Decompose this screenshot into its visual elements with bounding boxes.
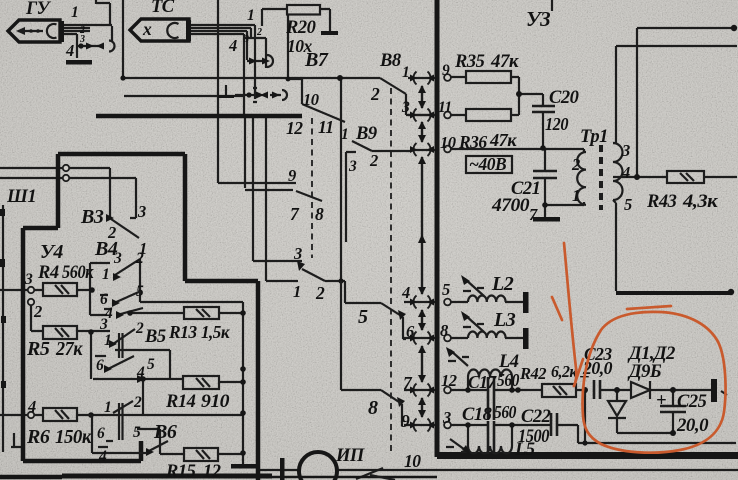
svg-text:560: 560 — [494, 402, 517, 422]
svg-text:2: 2 — [135, 250, 144, 267]
svg-text:L3: L3 — [493, 309, 516, 331]
svg-text:2: 2 — [370, 84, 380, 104]
svg-text:2: 2 — [135, 320, 144, 337]
svg-text:5: 5 — [147, 356, 155, 373]
svg-text:R20: R20 — [285, 18, 316, 38]
svg-text:ИП: ИП — [335, 446, 365, 466]
svg-text:С20: С20 — [549, 88, 579, 108]
svg-text:В3: В3 — [80, 206, 104, 228]
svg-text:2: 2 — [571, 155, 580, 174]
svg-text:4: 4 — [98, 448, 107, 465]
svg-text:1: 1 — [102, 266, 109, 283]
svg-text:910: 910 — [201, 392, 229, 412]
svg-text:~40В: ~40В — [469, 154, 507, 174]
svg-text:47к: 47к — [489, 130, 518, 150]
svg-text:5: 5 — [442, 280, 450, 299]
svg-text:12: 12 — [203, 462, 221, 480]
svg-text:6: 6 — [97, 425, 105, 442]
svg-text:10: 10 — [404, 451, 421, 471]
svg-text:3: 3 — [442, 408, 451, 427]
svg-text:3: 3 — [401, 99, 410, 116]
svg-text:R43: R43 — [646, 192, 677, 212]
svg-text:5: 5 — [358, 306, 368, 328]
svg-text:12: 12 — [286, 118, 303, 138]
svg-text:Д9Б: Д9Б — [627, 362, 662, 382]
svg-text:Д1,Д2: Д1,Д2 — [627, 344, 675, 364]
svg-text:1: 1 — [247, 7, 254, 24]
svg-text:R4: R4 — [37, 263, 59, 283]
svg-text:47к: 47к — [490, 52, 519, 72]
svg-text:11: 11 — [438, 99, 452, 116]
svg-text:5: 5 — [624, 195, 632, 214]
svg-text:R36: R36 — [458, 132, 487, 152]
svg-text:9: 9 — [442, 62, 450, 79]
svg-text:В9: В9 — [355, 124, 377, 144]
svg-text:R14: R14 — [165, 392, 196, 412]
svg-text:L5: L5 — [514, 440, 535, 460]
svg-text:У4: У4 — [40, 241, 63, 263]
svg-text:6,2к: 6,2к — [551, 362, 578, 381]
svg-text:5: 5 — [136, 283, 144, 300]
svg-text:2: 2 — [256, 27, 262, 38]
svg-text:Ш1: Ш1 — [6, 187, 36, 207]
svg-text:С25: С25 — [677, 392, 707, 412]
svg-text:x: x — [142, 19, 152, 39]
svg-text:У3: У3 — [526, 7, 550, 31]
svg-text:3: 3 — [99, 316, 108, 333]
svg-text:1: 1 — [572, 186, 580, 205]
svg-text:20,0: 20,0 — [676, 416, 708, 436]
svg-text:6: 6 — [406, 322, 415, 341]
svg-text:1: 1 — [341, 126, 348, 143]
svg-text:4,3к: 4,3к — [682, 192, 718, 212]
svg-text:+: + — [656, 391, 666, 411]
svg-text:1: 1 — [293, 282, 301, 301]
svg-text:С18: С18 — [462, 405, 492, 425]
svg-text:560: 560 — [497, 370, 520, 390]
svg-text:R15: R15 — [165, 462, 196, 480]
svg-text:10: 10 — [440, 133, 456, 152]
svg-text:3: 3 — [348, 158, 357, 175]
svg-text:560к: 560к — [62, 263, 94, 283]
svg-text:120: 120 — [545, 114, 569, 134]
svg-text:6: 6 — [96, 357, 104, 374]
svg-text:11: 11 — [318, 117, 334, 137]
svg-text:ГУ: ГУ — [25, 0, 52, 19]
svg-text:150к: 150к — [55, 426, 92, 448]
svg-text:9: 9 — [401, 411, 410, 431]
svg-text:7: 7 — [529, 205, 538, 224]
svg-text:2: 2 — [315, 283, 325, 303]
svg-text:1: 1 — [71, 4, 78, 21]
svg-text:5: 5 — [133, 424, 141, 441]
svg-text:3: 3 — [79, 34, 85, 45]
svg-text:1,5к: 1,5к — [201, 322, 231, 342]
svg-text:4: 4 — [65, 41, 74, 60]
svg-text:ТС: ТС — [151, 0, 175, 17]
svg-text:R35: R35 — [454, 52, 485, 72]
svg-text:L2: L2 — [491, 273, 514, 295]
svg-text:R6: R6 — [26, 426, 50, 448]
svg-text:10: 10 — [303, 90, 319, 109]
svg-text:12: 12 — [441, 371, 457, 390]
svg-text:8: 8 — [440, 321, 448, 340]
svg-text:2: 2 — [133, 394, 142, 411]
svg-text:R42: R42 — [519, 364, 546, 383]
svg-text:1: 1 — [402, 64, 409, 81]
svg-text:L4: L4 — [498, 352, 519, 372]
svg-text:3: 3 — [243, 34, 249, 45]
svg-text:3: 3 — [113, 250, 122, 267]
svg-text:R13: R13 — [168, 322, 197, 342]
svg-text:В6: В6 — [153, 421, 177, 443]
svg-text:3: 3 — [24, 271, 33, 288]
svg-text:В7: В7 — [304, 49, 329, 71]
svg-text:С22: С22 — [521, 407, 551, 427]
svg-text:Тр1: Тр1 — [580, 127, 608, 147]
svg-text:2: 2 — [33, 302, 42, 321]
svg-text:4: 4 — [27, 397, 36, 416]
svg-text:В8: В8 — [379, 51, 401, 71]
svg-text:9: 9 — [288, 166, 296, 185]
svg-text:1: 1 — [104, 332, 111, 349]
svg-text:4: 4 — [228, 36, 237, 55]
svg-text:8: 8 — [315, 204, 324, 224]
svg-text:R5: R5 — [26, 338, 50, 360]
svg-text:4: 4 — [401, 283, 410, 302]
svg-text:2: 2 — [369, 151, 378, 170]
svg-text:4: 4 — [136, 364, 145, 381]
svg-text:3: 3 — [137, 202, 146, 221]
svg-text:В5: В5 — [144, 327, 166, 347]
svg-text:4: 4 — [621, 163, 630, 182]
svg-text:3: 3 — [293, 244, 302, 263]
svg-text:27к: 27к — [55, 338, 83, 360]
svg-text:4700: 4700 — [491, 196, 529, 216]
svg-text:8: 8 — [368, 397, 378, 419]
svg-text:1: 1 — [104, 399, 111, 416]
svg-text:3: 3 — [621, 141, 630, 160]
svg-text:С17: С17 — [468, 372, 497, 392]
